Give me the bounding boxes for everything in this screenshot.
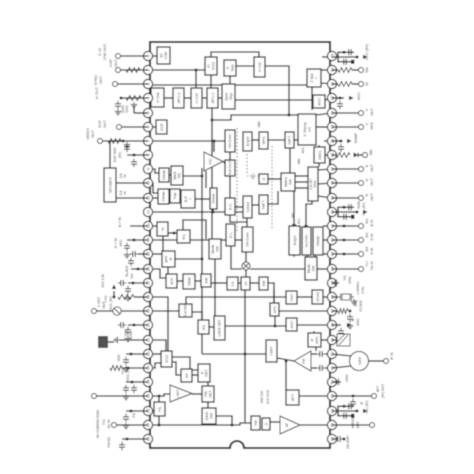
wire SECAM to pin183 <box>116 182 148 184</box>
pin left 15 <box>143 249 152 258</box>
wire AGC pin98 <box>325 98 332 100</box>
pin right 34 <box>327 122 336 131</box>
ground pin22L <box>125 366 127 369</box>
pin right 48 <box>327 320 336 329</box>
transistor ext <box>113 307 121 315</box>
svg-text:SVD VDD: SVD VDD <box>113 147 117 163</box>
wire pin198R ext <box>332 197 359 199</box>
pin left 27 <box>143 420 152 429</box>
svg-text:f0: f0 <box>161 227 165 230</box>
pin right 54 <box>327 406 336 415</box>
svg-text:OUT: OUT <box>114 58 118 67</box>
wire pin127R ext <box>332 126 359 128</box>
capacitor ramp <box>340 144 342 147</box>
svg-text:FM DC: FM DC <box>107 436 111 447</box>
wire IF apex left <box>277 358 294 361</box>
block BPF <box>162 251 175 267</box>
pin left 18 <box>143 292 152 301</box>
svg-text:D: D <box>264 422 268 425</box>
capacitor aft <box>352 399 354 402</box>
wire HCD up <box>195 70 197 88</box>
wire pin98R ext <box>332 97 344 99</box>
wire pin2 to FI VCO y70 <box>150 69 205 71</box>
wire VCO to NF <box>172 362 181 375</box>
wire pin254R ext <box>332 253 359 255</box>
diode abl <box>354 153 359 158</box>
wire ModeSW1-DL y240 <box>221 239 226 241</box>
wire Clamp3 down <box>314 255 316 257</box>
capacitor pin24Lb <box>133 385 135 388</box>
svg-text:Y/C: Y/C <box>208 158 213 165</box>
wire CBal pin70 <box>321 69 332 71</box>
wire pin14L ext <box>127 239 148 241</box>
capacitor apcfil <box>349 314 351 317</box>
svg-text:AFC-1: AFC-1 <box>211 93 215 104</box>
svg-text:SW: SW <box>262 280 266 287</box>
ground pin382R <box>339 381 342 383</box>
terminal pin70R <box>359 68 364 73</box>
capacitor pin15L <box>130 253 133 255</box>
block 1H <box>241 277 250 290</box>
junction pin18L <box>113 296 116 299</box>
wire mixer left to DL <box>231 246 242 269</box>
svg-text:AF: AF <box>285 423 289 427</box>
svg-text:SVD 3.3k: SVD 3.3k <box>101 274 105 288</box>
pin right 38 <box>327 178 336 187</box>
svg-text:AGC: AGC <box>290 320 294 328</box>
pin right 56 <box>327 434 336 443</box>
pin right 51 <box>327 363 336 372</box>
svg-text:OUT: OUT <box>370 107 374 115</box>
pin right 39 <box>327 193 336 202</box>
wire CutOff G out <box>318 183 332 184</box>
svg-text:Clamp: Clamp <box>162 170 166 180</box>
block AGC 2 <box>286 318 297 331</box>
svg-text:V. Ramp: V. Ramp <box>303 122 307 136</box>
pin right 29 <box>327 51 336 60</box>
svg-text:H C/D: H C/D <box>195 93 199 104</box>
junction x212 ramp <box>211 119 214 122</box>
wire CBal down x312 <box>311 87 313 110</box>
wire saw in1 <box>332 354 351 356</box>
svg-text:Det: Det <box>130 273 134 278</box>
svg-text:S 10: S 10 <box>98 48 102 56</box>
svg-text:TINT: TINT <box>290 293 294 302</box>
svg-text:C Bal: C Bal <box>310 73 314 82</box>
block V Ramp <box>298 114 316 145</box>
wire VRamp pin113 <box>316 113 332 115</box>
crystal 443 <box>342 294 350 300</box>
wire G to Matrix y179 <box>268 178 281 180</box>
wire SW-TK y283 <box>211 282 227 284</box>
svg-text:1H: 1H <box>244 281 248 286</box>
ground pin4L <box>117 109 119 112</box>
svg-text:SCF: SCF <box>160 123 164 131</box>
pin right 42 <box>327 235 336 244</box>
junction pin226R <box>343 225 346 228</box>
wire VCO to phDET <box>172 357 198 370</box>
wire ColSW to KIL2 <box>192 312 202 320</box>
svg-text:RGB: RGB <box>357 201 361 209</box>
capacitor pin8La <box>126 144 128 147</box>
wire pin24L ext <box>126 381 148 383</box>
dashed acl line x247 <box>246 154 248 174</box>
block D.L. <box>226 224 235 246</box>
junction pin8L <box>133 154 136 157</box>
wire pin26L ext <box>126 410 148 412</box>
wire chroma feed x245 <box>244 290 246 354</box>
wire Matrix-CutOff y188 <box>295 187 308 189</box>
svg-text:Trap: Trap <box>173 192 177 199</box>
svg-text:KIL: KIL <box>182 234 186 240</box>
block Uni-Color 1 <box>225 130 235 152</box>
wire pin20L ext <box>128 324 148 326</box>
terminal pin169R <box>359 167 364 172</box>
block C Bal <box>307 69 321 87</box>
terminal pin269R <box>359 267 364 272</box>
wire SCF pin127 <box>150 126 156 128</box>
pin right 36 <box>327 150 336 159</box>
wire to I-DET y354 <box>202 353 266 355</box>
block H C/D <box>191 88 202 108</box>
svg-text:FM: FM <box>254 420 258 425</box>
pin right 55 <box>327 420 336 429</box>
block Black Adj <box>171 166 183 185</box>
wire FMDET down to GAINSW <box>207 402 209 408</box>
junction pin98R <box>339 97 342 100</box>
pin right 50 <box>327 349 336 358</box>
terminal S10/CW <box>116 54 121 59</box>
wire pin155R ext <box>332 154 336 156</box>
junction chroma bus <box>212 211 215 214</box>
block G <box>259 174 268 184</box>
svg-text:IF: IF <box>360 401 364 404</box>
wire abl t <box>358 154 363 156</box>
pin right 31 <box>327 79 336 88</box>
svg-text:ABL: ABL <box>369 149 373 156</box>
pin right 52 <box>327 377 336 386</box>
wire AF apex to pin425R <box>300 424 332 426</box>
wire row y98 AFC1-SyncSep <box>218 97 222 99</box>
svg-text:Sep: Sep <box>231 65 235 72</box>
wire pin254 to BPF <box>150 253 162 255</box>
block Clamp 3 <box>313 227 323 255</box>
svg-text:PIF: PIF <box>302 358 306 363</box>
capacitor pin4L <box>117 101 119 104</box>
wire ABCL up <box>318 145 320 147</box>
wire pin311L to ColSW <box>150 310 179 312</box>
svg-text:HXP: HXP <box>109 59 113 67</box>
block Half T 1 <box>285 132 294 148</box>
pin left 13 <box>143 221 152 230</box>
block VCO 2 <box>161 351 172 367</box>
svg-text:AU IN: AU IN <box>107 419 111 429</box>
wire pin6L ext <box>122 126 148 128</box>
svg-text:VIDEO: VIDEO <box>86 128 90 140</box>
block Bright 2 <box>289 226 300 255</box>
wire pin28L ext <box>122 438 148 440</box>
wire AC to Colour y207 <box>235 206 243 208</box>
junction sync at SyncSep <box>222 84 225 87</box>
capacitor deemp <box>335 438 338 440</box>
pin left 5 <box>143 108 152 117</box>
terminal pin2L <box>116 68 121 73</box>
capacitor pin24L <box>125 385 127 388</box>
junction pin20La <box>133 324 136 327</box>
pin left 4 <box>143 93 152 102</box>
wire pin5L ext <box>134 112 148 114</box>
pin left 6 <box>143 122 152 131</box>
pin right 32 <box>327 93 336 102</box>
svg-text:R: R <box>365 193 369 196</box>
svg-text:FI: FI <box>207 64 211 67</box>
wire NF-phDET y375 <box>192 374 198 376</box>
wire BPF down to ACC <box>167 267 169 274</box>
block Colour <box>243 196 252 218</box>
block VCXO <box>312 290 323 304</box>
svg-text:FILTER: FILTER <box>359 300 363 312</box>
block TINT <box>286 291 297 304</box>
block ABCL <box>314 147 325 163</box>
wire IFAGC up <box>313 331 315 333</box>
svg-text:SW: SW <box>204 277 208 284</box>
svg-text:ABL: ABL <box>291 212 295 218</box>
svg-text:#43 CW: #43 CW <box>260 390 264 403</box>
svg-text:VCC (9V): VCC (9V) <box>126 367 130 382</box>
junction pin17L <box>132 282 135 285</box>
block Matrix SW <box>281 173 295 191</box>
wire pin183R ext <box>332 182 359 184</box>
pin left 8 <box>143 150 152 159</box>
resistor pin23L <box>110 366 122 371</box>
svg-text:D.L: D.L <box>229 232 233 238</box>
junction pin23L <box>127 367 130 370</box>
svg-text:4.43MHz: 4.43MHz <box>356 281 360 294</box>
block ACC <box>166 274 177 288</box>
svg-text:DE-EMP: DE-EMP <box>346 435 350 449</box>
wire pin198 to Clamp2 <box>150 197 158 199</box>
wire AFT pin396 <box>299 395 332 397</box>
wire pin70R ext <box>332 69 338 71</box>
svg-text:OUT: OUT <box>370 177 374 185</box>
wire TINT-VCXO y297 <box>297 296 312 298</box>
svg-text:DET: DET <box>208 390 212 398</box>
svg-text:AFT: AFT <box>376 386 380 392</box>
svg-text:IN: IN <box>123 191 127 195</box>
pin right 33 <box>327 108 336 117</box>
wire SECAM to pin198 <box>116 197 148 199</box>
svg-text:53a: 53a <box>365 67 369 73</box>
wire pin15L ext <box>138 253 148 255</box>
wire UnColor down <box>306 255 308 257</box>
pin left 11 <box>143 193 152 202</box>
wire Clamp1-BlackAdj <box>169 174 171 176</box>
wire pin70R t <box>352 69 359 71</box>
svg-text:12: 12 <box>145 209 150 214</box>
terminal hdet <box>92 309 97 314</box>
block IO/CW <box>157 47 170 64</box>
svg-text:M: M <box>351 318 355 321</box>
terminal SCF <box>117 125 122 130</box>
wire ABCL pin155 <box>325 154 332 156</box>
resistor apcfil <box>338 309 348 314</box>
svg-text:OUT: OUT <box>370 163 374 171</box>
capacitor pin22L <box>125 357 127 360</box>
pin left 3 <box>143 79 152 88</box>
terminal pin254R <box>359 252 364 257</box>
junction pin141R <box>340 140 343 143</box>
svg-text:Bright: Bright <box>293 236 297 245</box>
wire saw in2 <box>332 366 351 368</box>
wire Bright2 down <box>293 255 295 257</box>
pin left 17 <box>143 278 152 287</box>
block Uni-Color 2 <box>242 227 253 252</box>
svg-text:f0: f0 <box>169 258 173 261</box>
wire VRamp pin127 <box>316 126 332 128</box>
svg-text:G IN: G IN <box>370 233 374 241</box>
svg-text:B-Y IN: B-Y IN <box>118 216 122 226</box>
block H Out <box>151 88 164 107</box>
svg-text:NF: NF <box>185 372 189 378</box>
svg-text:IF IN: IF IN <box>390 352 394 360</box>
ground pin14L <box>126 252 128 255</box>
block DEM <box>183 274 195 289</box>
ground YCGND <box>337 282 340 284</box>
svg-text:VCC (9V): VCC (9V) <box>365 43 369 60</box>
wire pin27L ext <box>117 424 148 426</box>
terminal pin240R <box>359 238 364 243</box>
svg-text:G: G <box>262 177 266 180</box>
block Mode SW 2 <box>305 257 317 280</box>
junction pin24L <box>131 381 134 384</box>
capacitor pin28L <box>121 442 123 445</box>
terminal pin183R <box>359 181 364 186</box>
junction pin22L <box>130 353 133 356</box>
op-amp Y amplifier <box>204 152 223 171</box>
wire GAINSW right <box>216 416 232 425</box>
block f0 <box>157 222 168 236</box>
wire sync bus y85 <box>150 84 307 86</box>
block FI VCO <box>205 57 217 75</box>
svg-text:Sub-Cont: Sub-Cont <box>228 161 232 175</box>
pin right 40 <box>327 207 336 216</box>
pin right 30 <box>327 65 336 74</box>
pin right 44 <box>327 264 336 273</box>
arrow agc <box>349 96 354 100</box>
capacitor pin17L <box>127 286 129 289</box>
wire Trap-BP <box>180 195 181 197</box>
wire SyncSep to AGC y99 <box>235 99 313 101</box>
block FM demod b <box>262 418 270 430</box>
junction pin254R <box>343 253 346 256</box>
arrow ramp <box>347 139 352 143</box>
svg-text:AGC: AGC <box>315 336 319 344</box>
wire pin340R ext <box>332 339 337 341</box>
wire saw out <box>368 360 384 362</box>
terminal SYNC OUT <box>113 82 118 87</box>
capacitor network IF Vcc pin411 <box>332 410 357 412</box>
ground apcfil <box>349 323 351 326</box>
capacitor pin16L <box>130 258 132 261</box>
junction FIL bus <box>158 424 161 427</box>
pin left 2 <box>143 65 152 74</box>
svg-text:I-DET: I-DET <box>270 347 274 356</box>
svg-text:Un-Color: Un-Color <box>305 234 309 248</box>
wire ramp long y115 <box>212 115 298 120</box>
terminal pin113R <box>359 111 364 116</box>
terminal pin226R <box>359 224 364 229</box>
svg-text:SW: SW <box>209 413 213 419</box>
wire SW2 right to APC <box>268 283 274 303</box>
svg-text:B IN: B IN <box>370 219 374 226</box>
ground pin24L <box>125 394 127 397</box>
block B-P <box>181 190 195 208</box>
svg-text:GND: GND <box>129 331 133 339</box>
terminal AUIN <box>112 423 117 428</box>
op-amp LIMIT <box>170 385 192 402</box>
svg-text:OUT: OUT <box>103 119 107 128</box>
svg-text:Clamp: Clamp <box>162 191 166 201</box>
svg-text:ACL: ACL <box>297 218 301 224</box>
wire FIVCO down <box>210 75 212 88</box>
svg-text:/CW OUT: /CW OUT <box>103 43 107 60</box>
wire Matrix-CutOff y182 <box>295 181 308 183</box>
arrow inagc <box>347 323 352 327</box>
svg-text:AGC: AGC <box>317 97 321 105</box>
pin left 22 <box>143 349 152 358</box>
svg-text:ABL: ABL <box>297 158 301 165</box>
block SW 2 <box>259 277 268 290</box>
wire pin226 to f0 box <box>150 225 157 227</box>
svg-text:T.K.: T.K. <box>231 280 235 286</box>
wire pin22L ext <box>126 353 148 355</box>
ground pin8L <box>126 142 128 145</box>
wire pin425L bottom run <box>150 423 251 425</box>
junction pin240R <box>343 239 346 242</box>
wire ABCL down to CutOff <box>318 163 320 167</box>
block FM DET <box>202 386 214 402</box>
svg-text:SCF: SCF <box>98 120 102 128</box>
wire VCD right down x289 <box>265 66 289 115</box>
wire pin368L to VCO <box>150 363 161 368</box>
svg-text:FIL: FIL <box>132 412 136 417</box>
svg-text:APC: APC <box>119 239 123 247</box>
wire row y98 HCD-AFC1 <box>202 97 207 99</box>
svg-text:(9V) OUT: (9V) OUT <box>381 384 385 399</box>
svg-text:APC: APC <box>273 305 277 313</box>
saw filter circle <box>350 352 369 371</box>
wire BP-Smear y199 <box>195 198 210 200</box>
junction deemp <box>343 438 346 441</box>
pin left 21 <box>143 335 152 344</box>
block Clamp 1 <box>159 168 169 182</box>
wire pin425R ext <box>332 424 370 426</box>
wire pin2L ext <box>121 69 148 71</box>
block KIL <box>177 230 190 243</box>
block Smear <box>210 188 217 209</box>
wire pin183 to Clamp2 <box>150 183 158 193</box>
svg-text:BLACK: BLACK <box>125 265 129 277</box>
wire pin411L to FIL <box>150 410 154 412</box>
capacitor pin20Lb <box>118 324 121 326</box>
svg-text:/CW: /CW <box>164 51 168 59</box>
wire pin439R ext <box>332 438 336 440</box>
svg-text:XTAL: XTAL <box>361 286 365 294</box>
wire DG2 stub <box>133 106 135 113</box>
wire pin396L to LIMIT <box>150 394 170 396</box>
svg-text:A.C.: A.C. <box>228 203 232 210</box>
wire DEM-SW y281 <box>195 280 201 282</box>
